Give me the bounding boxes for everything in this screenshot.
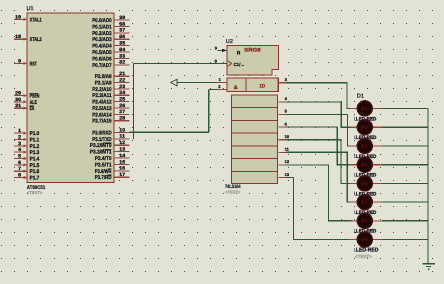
svg-text:9: 9 <box>18 58 21 64</box>
LED D1 value label LED-RED <box>355 116 377 122</box>
U2 pin 6 (Q3) output stub + number <box>278 121 287 127</box>
U1 pin 28 (P2.7/A15) right stub + number + name <box>92 116 129 125</box>
U2 1D label <box>259 83 265 89</box>
svg-text:P0.5/AD5: P0.5/AD5 <box>92 50 111 56</box>
svg-text:P3.4/T0: P3.4/T0 <box>95 156 112 162</box>
U1 value label AT89C51 <box>27 185 46 191</box>
wire LED D2 cathode to ground rail <box>382 126 428 128</box>
svg-text:14: 14 <box>119 153 125 159</box>
U1 pin 19 (XTAL1) left stub + number + name <box>14 14 42 23</box>
svg-text:P1.1: P1.1 <box>30 137 40 143</box>
wire LED D5 cathode to ground rail <box>382 182 428 184</box>
LED D5 (LED-RED) <box>350 176 382 191</box>
svg-text:6: 6 <box>18 160 21 166</box>
svg-text:1: 1 <box>18 128 21 134</box>
svg-text:25: 25 <box>119 97 125 103</box>
svg-text:12: 12 <box>119 140 125 146</box>
svg-text:36: 36 <box>119 34 125 40</box>
LED D2 (LED-RED) <box>350 120 382 135</box>
U2 pin 3 (Q0) output stub + number <box>278 77 287 83</box>
svg-text:P2.2/A10: P2.2/A10 <box>92 87 111 93</box>
U1 pin 21 (P2.0/A8) right stub + number + name <box>95 71 130 80</box>
svg-text:10: 10 <box>119 127 125 133</box>
svg-text:P1.4: P1.4 <box>30 157 40 163</box>
D1 reference label <box>357 94 364 100</box>
svg-text:P0.2/AD2: P0.2/AD2 <box>92 31 111 37</box>
svg-text:EA: EA <box>30 106 35 112</box>
wire U2 Q6 to LED 7 <box>286 165 353 221</box>
svg-text:P2.0/A8: P2.0/A8 <box>95 74 112 80</box>
svg-text:P3.1/TXD: P3.1/TXD <box>92 137 111 143</box>
U2 reference label <box>226 39 233 45</box>
U2 value label 74LS164 <box>225 184 241 190</box>
microcontroller U1 AT89C51 body <box>27 13 114 182</box>
U2 first cell (&amp; / 1D) row <box>227 78 278 92</box>
ground rail wire (vertical, right side) <box>427 108 429 263</box>
U1 pin 17 (P3.7/RD) right stub + number + name <box>95 172 130 181</box>
U1 pin 10 (P3.0/RXD) right stub + number + name <box>92 127 129 136</box>
LED D7 value label LED-RED <box>355 229 377 235</box>
U1 pin 3 (P1.2) left stub + number + name <box>14 141 39 150</box>
U1 pin 38 (P0.1/AD1) right stub + number + name <box>92 21 129 30</box>
U1 reference label <box>27 6 34 12</box>
U2 pin 10 (Q4) output stub + number <box>278 134 290 140</box>
svg-text:7: 7 <box>18 166 21 172</box>
LED D8 (LED-RED) <box>350 232 382 247</box>
svg-text:17: 17 <box>119 172 125 178</box>
svg-text:16: 16 <box>119 166 125 172</box>
svg-text:SRG8: SRG8 <box>244 47 261 53</box>
U1 pin 22 (P2.1/A9) right stub + number + name <box>95 78 130 87</box>
svg-text:P0.0/AD0: P0.0/AD0 <box>92 18 111 24</box>
svg-text:2: 2 <box>18 134 21 140</box>
U1 pin 29 (PSEN) left stub + number + name <box>14 91 39 100</box>
U1 pin 30 (ALE) left stub + number + name <box>14 97 37 106</box>
svg-text:32: 32 <box>119 60 125 66</box>
U1 pin 15 (P3.5/T1) right stub + number + name <box>95 159 130 168</box>
svg-text:33: 33 <box>119 53 125 59</box>
U1 pin 12 (P3.2/INT0) right stub + number + name <box>90 140 130 149</box>
U1 pin 8 (P1.7) left stub + number + name <box>14 173 39 182</box>
LED D8 value label LED-RED <box>355 248 379 254</box>
U2 pin 8 (C1 clock) wire from P3.1/TXD of U1 <box>133 64 227 139</box>
svg-text:&: & <box>234 85 238 91</box>
svg-text:38: 38 <box>119 21 125 27</box>
svg-text:15: 15 <box>119 159 125 165</box>
svg-text:XTAL2: XTAL2 <box>30 37 42 43</box>
svg-text:24: 24 <box>119 90 125 96</box>
svg-text:31: 31 <box>15 103 21 109</box>
svg-text:23: 23 <box>119 84 125 90</box>
wire LED D3 cathode to ground rail <box>382 145 428 147</box>
LED D6 value label LED-RED <box>355 210 377 216</box>
svg-text:P0.4/AD4: P0.4/AD4 <box>92 44 111 50</box>
wire U2 Q3 to LED 4 <box>286 127 353 165</box>
LED D1 (LED-RED) <box>350 101 382 116</box>
svg-text:13: 13 <box>285 172 290 177</box>
svg-text:P3.7/RD: P3.7/RD <box>95 175 112 181</box>
svg-text:35: 35 <box>119 41 125 47</box>
LED D6 (LED-RED) <box>350 195 382 210</box>
svg-text:18: 18 <box>15 34 21 40</box>
wire LED D1 cathode to ground rail <box>382 107 428 109</box>
U1 pin 39 (P0.0/AD0) right stub + number + name <box>92 15 129 24</box>
svg-text:C1/→: C1/→ <box>234 62 245 67</box>
wire U2 Q7 to LED 8 <box>286 178 353 240</box>
U1 pin 26 (P2.5/A13) right stub + number + name <box>92 103 129 112</box>
svg-text:P2.5/A13: P2.5/A13 <box>92 106 111 112</box>
U2 &amp; label <box>234 85 238 91</box>
LED D3 (LED-RED) <box>350 138 382 153</box>
LED D3 value label LED-RED <box>355 154 377 160</box>
U2 pin 13 (Q7) output stub + number <box>278 172 290 178</box>
U1 pin 35 (P0.4/AD4) right stub + number + name <box>92 41 129 50</box>
U1 pin 13 (P3.3/INT1) right stub + number + name <box>90 147 130 156</box>
wire LED D4 cathode to ground rail <box>382 164 428 166</box>
svg-text:P3.0/RXD: P3.0/RXD <box>92 130 111 136</box>
svg-text:<TEXT>: <TEXT> <box>27 190 43 195</box>
LED D2 value label LED-RED <box>355 135 377 141</box>
ground symbol <box>423 264 435 269</box>
svg-text:29: 29 <box>15 91 21 97</box>
svg-text:PSEN: PSEN <box>30 94 40 100</box>
svg-text:R: R <box>237 51 241 57</box>
svg-text:37: 37 <box>119 28 125 34</box>
U1 pin 37 (P0.2/AD2) right stub + number + name <box>92 28 129 37</box>
svg-text:8: 8 <box>18 173 21 179</box>
U1 pin 36 (P0.3/AD3) right stub + number + name <box>92 34 129 43</box>
LED D7 (LED-RED) <box>350 213 382 228</box>
svg-text:P0.1/AD1: P0.1/AD1 <box>92 24 111 30</box>
svg-text:11: 11 <box>119 134 125 140</box>
svg-text:<TEXT>: <TEXT> <box>355 254 372 259</box>
svg-text:1D: 1D <box>259 83 265 89</box>
U2 pin 9 (R, reset) stub with arrow <box>215 45 241 56</box>
U1 pin 14 (P3.4/T0) right stub + number + name <box>95 153 130 162</box>
svg-text:P2.4/A12: P2.4/A12 <box>92 100 111 106</box>
U1 pin 1 (P1.0) left stub + number + name <box>14 128 39 137</box>
LED D4 (LED-RED) <box>350 157 382 172</box>
shift register U2 74LS164 control block (SRG8) <box>227 46 278 75</box>
wire LED D7 cathode to ground rail <box>382 220 428 222</box>
U1 pin 9 (RST) left stub + number + name <box>14 58 37 67</box>
U1 pin 4 (P1.3) left stub + number + name <box>14 147 39 156</box>
svg-text:U1: U1 <box>27 6 34 12</box>
svg-text:34: 34 <box>119 47 125 53</box>
wire U2 Q1 to LED 2 <box>286 102 353 127</box>
U2 pin 4 (Q1) output stub + number <box>278 96 287 102</box>
svg-text:26: 26 <box>119 103 125 109</box>
U1 pin 32 (P0.7/AD7) right stub + number + name <box>92 60 129 69</box>
wire U2 Q5 to LED 6 <box>286 152 353 202</box>
svg-text:D1: D1 <box>357 94 364 100</box>
wire LED D6 cathode to ground rail <box>382 201 428 203</box>
U1 text placeholder <box>27 190 43 195</box>
svg-text:P2.1/A9: P2.1/A9 <box>95 81 112 87</box>
svg-text:P1.0: P1.0 <box>30 131 40 137</box>
U1 pin 27 (P2.6/A14) right stub + number + name <box>92 109 129 118</box>
U1 pin 34 (P0.5/AD5) right stub + number + name <box>92 47 129 56</box>
svg-text:4: 4 <box>18 147 21 153</box>
svg-text:XTAL1: XTAL1 <box>30 17 42 23</box>
U2 pin 1 (A input) stub + number <box>218 77 228 82</box>
svg-text:P0.6/AD6: P0.6/AD6 <box>92 56 111 62</box>
U1 pin 5 (P1.4) left stub + number + name <box>14 154 39 163</box>
svg-text:P3.5/T1: P3.5/T1 <box>95 162 112 168</box>
svg-text:P1.6: P1.6 <box>30 169 40 175</box>
U1 pin 11 (P3.1/TXD) right stub + number + name <box>92 134 129 143</box>
U1 pin 23 (P2.2/A10) right stub + number + name <box>92 84 129 93</box>
svg-text:P3.2/INT0: P3.2/INT0 <box>90 143 112 149</box>
svg-text:P1.7: P1.7 <box>30 176 40 182</box>
svg-text:P0.7/AD7: P0.7/AD7 <box>92 63 111 69</box>
svg-text:5: 5 <box>18 154 21 160</box>
wire from input terminal arrow to U2 pin 1 <box>177 82 218 84</box>
svg-text:10: 10 <box>285 134 290 139</box>
text placeholder under D8 <box>355 254 372 259</box>
svg-text:28: 28 <box>119 116 125 122</box>
svg-text:3: 3 <box>18 141 21 147</box>
svg-text:P1.2: P1.2 <box>30 144 40 150</box>
svg-text:P2.6/A14: P2.6/A14 <box>92 112 111 118</box>
svg-text:39: 39 <box>119 15 125 21</box>
svg-text:27: 27 <box>119 109 125 115</box>
U1 pin 31 (EA) left stub + number + name <box>14 103 34 112</box>
svg-text:P1.5: P1.5 <box>30 163 40 169</box>
U2 pin 11 (Q5) output stub + number <box>278 147 289 153</box>
svg-text:12: 12 <box>285 159 290 164</box>
svg-text:21: 21 <box>119 71 125 77</box>
svg-text:22: 22 <box>119 78 125 84</box>
U1 pin 33 (P0.6/AD6) right stub + number + name <box>92 53 129 62</box>
U2 clock chevron + C1 label + pin 8 number <box>215 58 245 66</box>
U2 pin 2 (B input) stub + number <box>218 84 228 89</box>
LED D5 value label LED-RED <box>355 191 377 197</box>
U1 pin 2 (P1.1) left stub + number + name <box>14 134 39 143</box>
svg-text:RST: RST <box>30 61 38 67</box>
svg-text:P3.3/INT1: P3.3/INT1 <box>90 150 112 156</box>
svg-text:30: 30 <box>15 97 21 103</box>
wire U2 Q0 to LED 1 <box>286 83 353 109</box>
svg-text:P1.3: P1.3 <box>30 150 40 156</box>
svg-text:13: 13 <box>119 147 125 153</box>
svg-text:U2: U2 <box>226 39 233 45</box>
svg-text:19: 19 <box>15 14 21 20</box>
wire LED D8 cathode to ground rail <box>382 239 428 241</box>
U1 pin 16 (P3.6/WR) right stub + number + name <box>95 166 130 175</box>
svg-text:P0.3/AD3: P0.3/AD3 <box>92 37 111 43</box>
U2 text placeholder <box>225 189 241 194</box>
wire U2 Q4 to LED 5 <box>286 140 353 184</box>
svg-text:<TEXT>: <TEXT> <box>225 189 241 194</box>
svg-text:P2.3/A11: P2.3/A11 <box>92 93 111 99</box>
wire from U1 P3.0/RXD to U2 pin 2 <box>130 89 218 132</box>
U1 pin 7 (P1.6) left stub + number + name <box>14 166 39 175</box>
input terminal arrow (node DATA) <box>171 79 177 85</box>
U2 pin 12 (Q6) output stub + number <box>278 159 290 165</box>
U2 SRG8 type label <box>244 47 261 53</box>
U1 pin 24 (P2.3/A11) right stub + number + name <box>92 90 129 99</box>
svg-text:ALE: ALE <box>30 100 38 106</box>
U1 pin 6 (P1.5) left stub + number + name <box>14 160 39 169</box>
wire U2 Q2 to LED 3 <box>286 114 353 145</box>
U2 pin 5 (Q2) output stub + number <box>278 109 287 115</box>
U1 pin 25 (P2.4/A12) right stub + number + name <box>92 97 129 106</box>
U2 output cell stack Q0..Q7 <box>232 95 278 184</box>
svg-text:P3.6/WR: P3.6/WR <box>95 169 112 175</box>
U1 pin 18 (XTAL2) left stub + number + name <box>14 34 42 43</box>
LED D4 value label LED-RED <box>355 173 377 179</box>
svg-text:LED-RED: LED-RED <box>356 248 379 254</box>
svg-text:P2.7/A15: P2.7/A15 <box>92 119 111 125</box>
